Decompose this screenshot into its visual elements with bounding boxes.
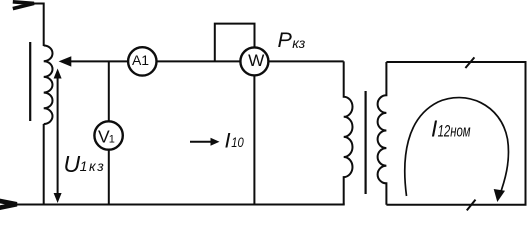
svg-text:10: 10	[231, 135, 244, 150]
autotransformer bar	[29, 42, 31, 121]
wire left branch down	[43, 124, 45, 205]
wire voltmeter branch upper	[108, 61, 110, 121]
wire wattmeter to transformer	[269, 60, 344, 62]
svg-text:P: P	[278, 28, 293, 52]
ammeter A1	[128, 47, 156, 75]
autotransformer winding	[44, 46, 53, 124]
voltmeter V1	[94, 121, 122, 149]
svg-text:12ном: 12ном	[438, 122, 471, 140]
wire wiper to ammeter	[69, 60, 129, 62]
svg-text:W: W	[248, 52, 265, 70]
wire wattmeter down	[253, 76, 255, 205]
transformer secondary winding	[378, 62, 387, 205]
wiper arrow of autotransformer	[59, 56, 72, 66]
break slash bottom	[467, 200, 476, 211]
svg-text:U: U	[64, 151, 81, 177]
svg-text:1кз: 1кз	[80, 158, 106, 174]
supply arrow bottom (stealth, pointing right)	[0, 201, 17, 208]
wire voltmeter branch lower	[108, 150, 110, 205]
I10 current arrow	[190, 141, 213, 143]
U1kz double arrow	[57, 75, 59, 197]
svg-text:I: I	[225, 127, 231, 152]
wire ammeter to wattmeter	[157, 60, 241, 62]
I12nom current loop arc	[405, 98, 509, 197]
svg-text:1: 1	[109, 133, 115, 145]
wire top supply stub	[33, 4, 44, 47]
wire secondary loop box	[386, 62, 525, 205]
wire bottom rail	[15, 204, 345, 206]
wattmeter W	[240, 47, 268, 75]
svg-text:кз: кз	[292, 35, 306, 51]
transformer primary winding	[344, 61, 353, 204]
wattmeter voltage-coil bracket	[215, 24, 255, 62]
break slash top	[465, 57, 474, 68]
svg-text:A1: A1	[132, 52, 149, 68]
transformer core	[365, 91, 367, 194]
supply arrow top (stealth, pointing right)	[13, 2, 34, 9]
